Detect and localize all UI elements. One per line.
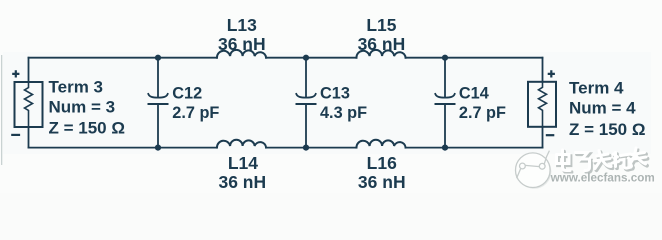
capacitor C12 plates xyxy=(148,94,167,98)
svg-text:L15: L15 xyxy=(366,15,396,35)
capacitor C14 wires xyxy=(444,58,446,97)
svg-text:C14: C14 xyxy=(459,85,489,103)
svg-text:Z = 150 Ω: Z = 150 Ω xyxy=(49,119,125,138)
svg-text:2.7 pF: 2.7 pF xyxy=(459,104,506,122)
watermark logo circle xyxy=(516,151,552,189)
resistor zigzag term 3 xyxy=(25,82,33,127)
node junction top C12 xyxy=(155,55,161,61)
svg-text:4.3 pF: 4.3 pF xyxy=(320,104,367,122)
subtle interior tint xyxy=(3,52,651,154)
plus sign term 3 xyxy=(12,70,19,77)
svg-text:2.7 pF: 2.7 pF xyxy=(172,104,219,122)
node junction bottom C12 xyxy=(155,145,161,151)
term 3 box xyxy=(15,82,43,127)
capacitor C13 wires xyxy=(305,58,307,97)
svg-text:36 nH: 36 nH xyxy=(358,172,406,192)
inductor L15 coil xyxy=(356,50,405,58)
wire right terminal bottom drop xyxy=(542,127,544,148)
wire bottom rail xyxy=(29,147,543,149)
svg-text:C13: C13 xyxy=(320,85,350,103)
watermark chinese text 电子发烧友 (stroke approximation) xyxy=(557,148,648,172)
capacitor C12 wires xyxy=(157,58,159,97)
node junction bottom C13 xyxy=(303,145,309,151)
svg-text:L16: L16 xyxy=(367,153,397,173)
svg-text:Num = 4: Num = 4 xyxy=(569,98,636,117)
wire left terminal bottom drop xyxy=(28,127,30,148)
svg-text:36 nH: 36 nH xyxy=(358,34,406,54)
node junction bottom C14 xyxy=(442,145,448,151)
wire top rail xyxy=(29,57,543,59)
minus sign term 4 xyxy=(546,134,555,136)
capacitor C14 plates xyxy=(435,94,454,98)
wire right terminal top drop xyxy=(542,58,544,82)
svg-text:Term 3: Term 3 xyxy=(49,78,104,97)
svg-text:36 nH: 36 nH xyxy=(218,34,266,54)
svg-text:Term 4: Term 4 xyxy=(569,79,624,98)
watermark url www.elecfans.com xyxy=(550,171,656,185)
svg-text:L14: L14 xyxy=(228,153,258,173)
node junction top C13 xyxy=(303,55,309,61)
svg-text:www.elecfans.com: www.elecfans.com xyxy=(550,171,655,184)
svg-text:C12: C12 xyxy=(172,85,202,103)
wire left terminal top drop xyxy=(28,58,30,82)
plus sign term 4 xyxy=(548,70,555,77)
term 4 box xyxy=(528,82,556,127)
svg-text:36 nH: 36 nH xyxy=(218,172,266,192)
svg-text:Z = 150 Ω: Z = 150 Ω xyxy=(569,120,645,139)
node junction top C14 xyxy=(442,55,448,61)
minus sign term 3 xyxy=(11,134,20,136)
resistor zigzag term 4 xyxy=(539,82,547,127)
inductor L14 coil xyxy=(217,140,266,148)
inductor L16 coil xyxy=(356,140,405,148)
svg-text:Num = 3: Num = 3 xyxy=(49,97,116,116)
svg-text:L13: L13 xyxy=(227,15,257,35)
capacitor C13 plates xyxy=(296,94,315,98)
inductor L13 coil xyxy=(217,50,266,58)
faint left border line xyxy=(1,55,2,165)
